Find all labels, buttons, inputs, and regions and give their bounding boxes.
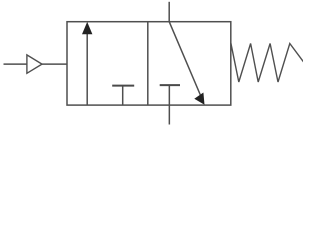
position divider line <box>147 22 149 105</box>
flow path arrow (left square, up) shaft <box>86 33 88 105</box>
blocked port symbol (left square) stem <box>122 86 124 105</box>
blocked port symbol (right square) stem through bottom port stub <box>168 85 170 124</box>
flow path diagonal line (right square) <box>169 22 202 100</box>
pneumatic pilot triangle <box>27 55 42 73</box>
flow path diagonal arrowhead <box>194 93 204 105</box>
wire pilot lead left <box>4 63 27 65</box>
flow path arrowhead (up) <box>82 22 92 34</box>
valve body outline (2-position box) <box>67 22 231 105</box>
wire pilot to body <box>42 63 67 65</box>
blocked port symbol (left square) cap <box>112 85 134 87</box>
blocked port symbol (right square) cap <box>160 84 180 86</box>
port stub top (right square) <box>168 2 170 22</box>
return spring <box>231 43 304 82</box>
